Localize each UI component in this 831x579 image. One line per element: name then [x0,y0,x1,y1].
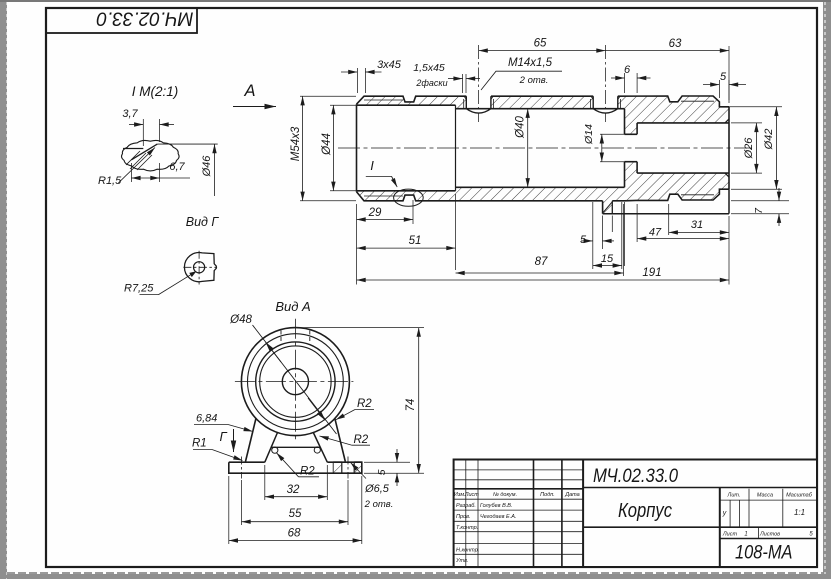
svg-text:№ докум.: № докум. [493,492,517,498]
leader 6,84 [228,425,253,432]
label M14x1,5 2 otv leader [481,71,562,90]
svg-text:Разраб.: Разраб. [456,503,476,509]
hidden line M14 hole left [280,331,282,344]
ext 51 right [455,194,457,270]
svg-text:2 отв.: 2 отв. [519,75,549,86]
outline: outer top left section with thread relief groove [357,96,467,104]
title row 479.8 [454,479,583,481]
title row 521.3 [454,520,583,522]
hatch local section left of hole [333,462,342,473]
svg-text:74: 74 [405,399,417,412]
arrow 3,7 left [129,124,143,126]
bore step d44/d40 [455,105,457,191]
web hole d14 bottom [625,161,638,163]
line under list row [720,538,817,540]
dim line 15 [593,265,622,267]
ext 68 left [228,476,230,544]
ext 5 foot top [364,461,410,463]
local section break line [332,462,334,473]
view A outer circle d54 [241,328,349,436]
arrow 3x45 right [365,71,381,73]
ext 7 bottom [731,213,789,215]
ext 47 left [636,204,638,242]
arrow 5 foot upper [396,449,398,462]
ext 15 b [621,202,623,269]
ext d42 top [721,106,782,108]
dim line 47 [637,238,729,240]
view A circle d36 [260,346,331,417]
ext 5 b [601,216,603,250]
top-left stamp box [46,8,197,33]
bore d44 bottom [357,190,456,192]
dim line 87 [456,272,624,274]
svg-text:6,84: 6,84 [196,413,217,425]
svg-text:Лист: Лист [464,492,480,498]
svg-text:Вид А: Вид А [275,299,310,314]
title vline 561.9 [561,460,563,568]
left foot hole centerline [241,457,243,479]
svg-text:31: 31 [691,219,703,231]
arrow 6 left [611,77,625,79]
line under drawing number [583,487,817,489]
ext 3x45 left [356,68,358,93]
cutout top line between legs [272,446,321,448]
ext stub right [611,216,613,233]
dim line M54x3 [302,96,304,201]
ext 5/15 a [592,202,594,269]
svg-text:15: 15 [601,253,614,265]
vline lit/massa [748,489,750,527]
svg-text:3,7: 3,7 [122,108,138,120]
dim line 32 [265,496,328,498]
view A horizontal centerline [235,381,354,383]
bore d40 bottom [456,186,625,188]
svg-text:Пров.: Пров. [456,514,471,520]
ext 74 bottom [364,472,424,474]
svg-text:Н.контр.: Н.контр. [456,548,479,554]
dim line 6,7 [131,177,159,179]
hatch: top wall between M14 holes [491,96,593,109]
svg-text:R2: R2 [357,398,372,410]
view G center hole [194,262,205,273]
web hole d14 top [625,133,638,135]
arrow 1,5x45 left [448,78,463,80]
ext d26 top [731,122,762,124]
arrow 5 right [729,84,746,86]
left leg inner [265,433,278,463]
left end face [356,104,358,192]
ext d44 top [330,104,356,106]
ext d26 bottom [731,172,762,174]
hatch local section right of hole [354,462,362,473]
arrow 5 left [703,84,719,86]
dim line 29 [357,219,414,221]
ext 5 right [728,80,730,103]
title vline 478 [477,460,479,568]
outline: outer top right section with groove and thread [618,96,729,107]
outline: outer bottom right section [612,189,729,201]
right end of foot [728,189,730,214]
title row 499.2 [454,498,583,500]
svg-text:Ø40: Ø40 [515,116,527,139]
svg-text:65: 65 [534,38,547,50]
svg-text:I: I [370,158,374,173]
hatch: bottom wall + web lower + foot stub [357,162,730,214]
title vline 465.8 [465,460,467,568]
dim line d46 arrow [214,144,216,196]
hatch: top wall left section [357,96,467,109]
bore chamfer top right [725,119,729,123]
R2 leader 1 [336,410,355,420]
dim line 51 [357,247,456,249]
vline list/listov [757,527,759,538]
view A vertical centerline [294,319,296,440]
svg-text:Лит.: Лит. [727,493,741,499]
svg-text:Утв.: Утв. [455,558,469,564]
foot plate [229,462,362,473]
svg-text:108-МА: 108-МА [735,542,793,564]
vline left of lit section [719,488,721,568]
ext 55 right [347,480,349,525]
view A center hole d14 [282,369,308,395]
ext 1,5x45 a [462,74,464,93]
lit subcell 1 [729,500,731,527]
svg-text:Вид Г: Вид Г [186,215,220,229]
ext 32 left [264,465,266,500]
leader R1,5 [118,148,155,183]
bore chamfer bottom right [725,173,729,177]
lit subcell 2 [739,500,741,527]
svg-text:Ø26: Ø26 [743,137,755,160]
outline: outer top between holes [491,95,593,97]
ext line right end top [728,46,730,100]
svg-text:I М(2:1): I М(2:1) [132,84,179,99]
right leg inner [313,433,327,463]
svg-text:Лист: Лист [722,532,738,538]
svg-text:1,5х45: 1,5х45 [413,62,445,74]
svg-text:2 отв.: 2 отв. [364,499,394,510]
svg-text:Голубев В.В.: Голубев В.В. [480,503,512,509]
leader d6,5 [351,463,367,479]
R2 leader 3 [277,453,299,477]
svg-text:Ø42: Ø42 [763,129,775,151]
arrow 1,5x45 right [466,78,480,80]
svg-text:55: 55 [289,508,302,520]
hidden line M14 hole right [309,331,311,344]
ext 74 top [298,327,424,329]
svg-text:6,7: 6,7 [169,161,185,173]
arrow 5 foot lower [396,473,398,486]
foot bottom visible line [603,213,729,215]
svg-text:Масштаб: Масштаб [786,493,813,499]
bore d26 bottom [637,172,729,174]
svg-text:Ø14: Ø14 [583,124,595,145]
dim line 63 [606,50,730,52]
thread minor line top right [681,100,714,102]
svg-text:Подп.: Подп. [540,492,555,498]
M14 hole 2 [592,96,594,109]
right foot hole centerline [347,457,349,479]
foot hole d6.5 section walls [333,462,354,473]
bore d26 top [637,122,729,124]
view A circle d40 [256,342,335,421]
dim line d40 [527,109,529,188]
ext web left [624,73,626,93]
ext 68 right [361,476,363,544]
left leg outer [246,418,257,461]
line under Korpus [583,526,817,528]
svg-text:Ø44: Ø44 [321,133,333,156]
ext 7 top [731,200,789,202]
svg-text:6: 6 [624,64,631,76]
svg-text:R2: R2 [354,434,369,446]
bore d40 top [456,108,625,110]
dim line d42 [775,107,777,189]
view G outline [184,253,216,282]
view direction arrow A [233,106,276,108]
svg-text:М54х3: М54х3 [290,126,302,161]
vline massa/masshtab [782,489,784,527]
arrow 5 right bottom [602,240,614,242]
svg-text:Корпус: Корпус [618,500,672,522]
ext 6,7 left [130,163,132,182]
arrow 6 right [637,77,650,79]
arrow 3,7 right [160,124,175,126]
ext 3x45 right [364,68,366,93]
title row 488.8 [454,488,583,490]
ext left end lower [356,204,358,285]
thread minor line bottom left M54 [364,195,403,197]
svg-text:47: 47 [649,227,662,239]
svg-text:63: 63 [669,38,682,50]
ext 29 right [412,200,414,224]
svg-text:у: у [722,510,727,517]
svg-text:М14х1,5: М14х1,5 [508,57,553,69]
title row 469.9 [454,469,583,471]
R2 fillet bump left [272,447,278,453]
ext 55 left [241,480,243,525]
svg-text:3х45: 3х45 [377,59,402,71]
svg-text:Т.контр.: Т.контр. [456,525,478,531]
svg-text:А: А [243,82,255,100]
ext 3,7 right [159,119,161,142]
view A circle d48 [248,334,344,430]
dim line 74 [418,328,420,474]
view direction arrow G [233,429,235,452]
right leg outer [335,418,346,461]
svg-text:МЧ.02.33.0: МЧ.02.33.0 [96,8,193,29]
dim line 55 [242,521,349,523]
view G centerline v [198,251,200,285]
title block outer [454,460,817,568]
ext web right [636,73,638,93]
ext d44 bottom [330,190,356,192]
arrow 7 lower [778,214,780,226]
foot stub left face [602,201,604,214]
thread minor line top left M54 [364,99,403,101]
right end face [728,107,730,189]
dim line 68 [229,540,362,542]
dim line 31 [669,231,729,233]
svg-text:R1: R1 [192,438,207,450]
svg-text:Листов: Листов [759,532,780,538]
ext web face down [623,202,625,266]
ext 191 right [728,216,730,285]
title vline 583.1 [582,460,584,568]
svg-text:1: 1 [744,532,747,538]
svg-text:7: 7 [753,207,765,214]
svg-text:Ø6,5: Ø6,5 [364,483,390,495]
ext M54 bottom [300,200,356,202]
svg-text:R1,5: R1,5 [98,175,122,187]
main axis centerline [338,147,752,149]
svg-text:Чегодаев Е.А.: Чегодаев Е.А. [480,514,516,520]
svg-text:5: 5 [580,234,587,246]
bore d44 top [357,104,456,106]
foot stub hatch diagonal [603,202,612,212]
dim line d14 [601,134,603,161]
svg-text:Ø46: Ø46 [201,155,213,178]
ext 87 right [623,204,625,276]
view G centerline h [183,266,217,268]
detail I internal profile [123,148,143,150]
ext 32 right [326,465,328,500]
title row 510.1 [454,509,583,511]
thread minor line bottom right [681,194,714,196]
ext 31 left [668,204,670,235]
R2 leader 2 [320,436,353,445]
hatch: top wall right + web upper [618,96,729,134]
outline: outer bottom left/middle with relief groove [357,192,603,201]
line under lit header [720,499,817,501]
arrow 3x45 left [341,71,357,73]
foot stub right face [611,201,613,214]
svg-text:87: 87 [535,256,548,268]
ext d14 top [600,133,625,135]
leader R1 [212,450,243,461]
dim line d44 [332,105,334,191]
title row 543.4 [454,542,583,544]
svg-text:51: 51 [409,235,422,247]
svg-text:Г: Г [219,429,227,444]
dim line 191 [357,279,730,281]
web left face upper [624,109,626,135]
svg-text:Ø48: Ø48 [229,314,252,326]
arrow 5 left bottom [581,240,593,242]
detail hatch strokes [126,151,152,170]
web right face upper [636,123,638,134]
dim line d26 [755,123,757,173]
title vline 533.5 [533,460,535,568]
ext 5 left [718,80,720,98]
svg-text:МЧ.02.33.0: МЧ.02.33.0 [593,465,678,487]
ext M54 top [300,95,356,97]
ext 6,7 right [159,163,161,182]
title row 531.7 [454,531,583,533]
svg-text:29: 29 [368,207,382,219]
web left face lower [624,162,626,188]
svg-text:Масса: Масса [757,493,773,499]
R2 fillet bump right [314,447,320,453]
arrow 7 upper [778,188,780,201]
title row 554.3 [454,553,583,555]
ext 1,5x45 b [465,74,467,93]
M14 hole 1 [465,96,467,109]
svg-text:5: 5 [720,71,727,83]
svg-text:Дата: Дата [564,492,580,498]
detail I cloud outline [122,140,180,171]
svg-text:191: 191 [642,267,661,279]
svg-text:32: 32 [287,484,300,496]
svg-text:2фаски: 2фаски [415,78,447,88]
ext d42 bottom [731,188,782,190]
detail I callout leader and cloud [366,177,397,187]
svg-text:R2: R2 [300,466,315,478]
svg-text:R7,25: R7,25 [124,283,154,295]
web right face lower [636,162,638,173]
svg-text:5: 5 [376,469,388,475]
ext d14 bottom [600,161,625,163]
svg-text:68: 68 [288,528,301,540]
ext 3,7 left [142,119,144,146]
dim line 65 [479,50,606,52]
svg-text:1:1: 1:1 [794,508,805,517]
leader R7,25 [140,294,159,296]
d48 leader diagonal [253,325,337,434]
